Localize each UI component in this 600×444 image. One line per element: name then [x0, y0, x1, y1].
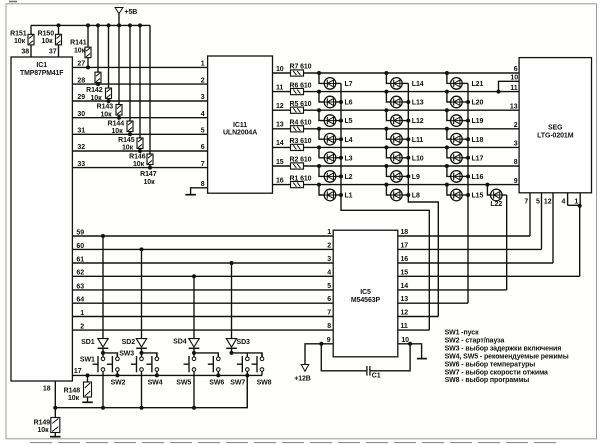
lamp L2 [317, 164, 353, 182]
svg-text:L22: L22 [490, 201, 502, 208]
diode SD4 [189, 276, 200, 353]
lamp L16 [445, 164, 484, 182]
svg-text:SW7 - выбор скорости отжима: SW7 - выбор скорости отжима [445, 368, 548, 376]
wire IC11 pin 10 row to SEG pin 6 [273, 72, 520, 74]
svg-text:TMP87PM41F: TMP87PM41F [20, 70, 63, 77]
SEG pin 4 label [562, 199, 566, 206]
svg-text:10к: 10к [91, 95, 103, 102]
wire diode link to SW2 [103, 353, 117, 357]
svg-text:11: 11 [276, 84, 283, 91]
wire diode link to SW8 [232, 353, 263, 357]
wire IC1 pin 61 to IC5 pin 3 [72, 262, 333, 264]
wire IC5 pin 12 to lamp column 2 [398, 316, 439, 318]
svg-text:10к: 10к [14, 38, 26, 45]
svg-text:1: 1 [80, 310, 84, 317]
IC11 pin 5 label [201, 128, 205, 135]
resistor R7 610 [290, 64, 312, 76]
switch SW2 label [111, 379, 126, 386]
resistor R145 10k pull-up [118, 25, 135, 151]
lamp L22 [485, 183, 506, 209]
IC5 pin 16 label [401, 256, 409, 263]
wire SEG pin 1 stub [579, 193, 581, 206]
lamp L20 [445, 90, 484, 108]
svg-text:14: 14 [401, 283, 409, 290]
svg-text:6: 6 [514, 66, 518, 73]
lamp L17 [445, 145, 484, 163]
svg-text:SW7: SW7 [230, 379, 245, 386]
SEG pin 7 label [524, 199, 528, 206]
svg-text:3: 3 [327, 256, 331, 263]
IC5 pin 6 label [327, 296, 331, 303]
IC5 pin 8 label [327, 323, 331, 330]
svg-text:R151: R151 [10, 30, 27, 37]
resistor R141 10k pull-up [70, 25, 91, 67]
svg-text:R1 610: R1 610 [290, 175, 312, 182]
junction dot diode to SW5 [192, 351, 196, 355]
ground symbol at R149 [50, 436, 61, 438]
svg-text:13: 13 [276, 122, 284, 129]
SEG pin 12 label [544, 199, 552, 206]
driver IC11 ULN2004A [208, 56, 273, 193]
SEG pin 2 label [514, 122, 518, 129]
IC5 pin 11 label [401, 323, 408, 330]
wire diode link to SW4 [142, 353, 157, 357]
svg-text:L12: L12 [412, 118, 424, 125]
wire jog from row 2 to SEG pin 10 [497, 81, 520, 93]
lamp L21 [445, 71, 484, 89]
IC11 pin 12 label [276, 103, 284, 110]
IC5 pin 13 label [401, 296, 409, 303]
svg-text:8: 8 [327, 323, 331, 330]
svg-text:2: 2 [201, 77, 205, 84]
svg-text:R3 610: R3 610 [290, 138, 312, 145]
svg-text:2: 2 [80, 324, 84, 331]
svg-text:SW8: SW8 [257, 379, 272, 386]
svg-text:R143: R143 [97, 104, 114, 111]
switch SW5 [184, 353, 196, 408]
svg-text:SW4, SW5 - рекомендуемые режим: SW4, SW5 - рекомендуемые режимы [445, 353, 569, 360]
IC5 pin 3 label [327, 256, 331, 263]
pin 62 label [76, 270, 84, 277]
lamp L15 [445, 183, 484, 201]
switch SW8 label [257, 379, 272, 386]
wire IC1 pin 31 to IC11 pin 5 [72, 133, 207, 135]
pin 33 label [77, 161, 85, 168]
pin 17 label [74, 368, 82, 375]
lamp L6 [317, 90, 353, 108]
svg-text:4: 4 [562, 199, 566, 206]
svg-text:10: 10 [401, 337, 409, 344]
svg-text:SW6: SW6 [209, 379, 224, 386]
wire IC1 pin 60 to IC5 pin 2 [72, 248, 333, 250]
svg-text:L16: L16 [472, 174, 484, 181]
wire SEG pin 4 stub [567, 193, 569, 206]
switch SW7 [237, 353, 249, 408]
svg-text:31: 31 [77, 128, 85, 135]
SEG pin 13 label [510, 103, 518, 110]
junction dots on lower bus [53, 406, 196, 410]
wire lamp L22 to IC5 pin 14 [506, 195, 508, 290]
svg-text:R146: R146 [129, 154, 146, 161]
wire IC1 pin 28 to IC11 pin 2 [72, 83, 207, 85]
svg-text:10к: 10к [133, 161, 145, 168]
svg-text:8: 8 [514, 159, 518, 166]
ground symbol at IC5 pin 10 [417, 358, 427, 360]
svg-text:61: 61 [76, 256, 84, 263]
wire IC11 pin 14 row to SEG pin 3 [273, 146, 520, 148]
svg-text:16: 16 [276, 177, 284, 184]
diode SD2 label [122, 339, 136, 346]
resistor R151 [10, 25, 34, 57]
svg-text:SW4: SW4 [148, 379, 163, 386]
svg-text:SW8 - выбор программы: SW8 - выбор программы [445, 376, 530, 384]
wire IC5 pin 13 to lamp column 3 [398, 302, 468, 304]
pin 59 label [76, 229, 84, 236]
junction dot R146 on pin 32 line [138, 149, 142, 153]
junction dot R143 on pin 29 line [107, 99, 111, 103]
IC11 pin 13 label [276, 122, 284, 129]
wire IC1 pin 64 to IC5 pin 6 [72, 302, 333, 304]
svg-text:10к: 10к [122, 145, 134, 152]
resistor R6 610 [290, 82, 312, 94]
svg-text:2: 2 [327, 242, 331, 249]
svg-text:16: 16 [401, 256, 409, 263]
svg-text:ULN2004A: ULN2004A [223, 130, 257, 137]
junction dot C1 tap [319, 342, 323, 346]
svg-text:SD4: SD4 [173, 339, 187, 346]
svg-text:11: 11 [510, 85, 517, 92]
svg-text:32: 32 [77, 144, 85, 151]
svg-text:9: 9 [327, 337, 331, 344]
svg-text:2: 2 [514, 122, 518, 129]
IC11 pin 15 label [276, 159, 284, 166]
svg-text:SW6 - выбор температуры: SW6 - выбор температуры [445, 360, 536, 368]
lamp L5 [317, 108, 353, 126]
svg-text:15: 15 [276, 159, 284, 166]
resistor R5 610 [290, 101, 312, 113]
svg-text:SW1: SW1 [80, 356, 95, 363]
pin 1 label [80, 310, 84, 317]
junction dots on +5V rail [57, 23, 143, 27]
svg-text:5: 5 [327, 283, 331, 290]
svg-text:SEG: SEG [548, 124, 563, 131]
pin 18 label [43, 386, 51, 393]
resistor R149 10k [34, 408, 60, 437]
junction dot R141 on pin 27 line [86, 65, 90, 69]
svg-text:3: 3 [201, 94, 205, 101]
svg-text:L7: L7 [345, 81, 353, 88]
svg-text:M54563P: M54563P [351, 297, 381, 304]
resistor R147 10k pull-up [140, 25, 157, 186]
svg-text:10: 10 [510, 75, 518, 82]
wire IC5 pin 18 to SEG pin 7 [398, 235, 530, 237]
svg-text:R145: R145 [118, 137, 135, 144]
diode SD4 label [173, 339, 187, 346]
svg-text:3: 3 [514, 141, 518, 148]
IC11 pin 3 label [201, 94, 205, 101]
svg-text:59: 59 [76, 229, 84, 236]
IC5 pin 14 label [401, 283, 409, 290]
display SEG LTG-0201M [519, 58, 591, 193]
wire diode link to SW6 [194, 353, 218, 357]
pin 2 label [80, 324, 84, 331]
svg-text:R144: R144 [108, 120, 125, 127]
wire IC1 pin 17 rail [72, 374, 262, 376]
svg-text:L10: L10 [412, 155, 424, 162]
power +5V symbol [115, 8, 137, 16]
pin 63 label [76, 283, 84, 290]
lamp L10 [384, 145, 423, 163]
svg-text:30: 30 [77, 111, 85, 118]
resistor R4 610 [290, 120, 312, 132]
wire IC1 pin 33 to IC11 pin 7 [72, 167, 207, 169]
ground symbol at R148 [82, 401, 93, 403]
resistor R146 10k pull-up [129, 25, 146, 168]
wire IC5 pin 10 to ground [398, 342, 422, 358]
wire lamp column 1 bus to IC5 pin 11 [341, 83, 429, 330]
diode SD1 [98, 236, 109, 353]
svg-text:9: 9 [514, 178, 518, 185]
svg-text:6: 6 [201, 144, 205, 151]
SEG pin 9 label [514, 178, 518, 185]
switch SW2 [107, 353, 119, 376]
svg-text:IC1: IC1 [36, 62, 47, 69]
SEG pin 1 label [574, 199, 578, 206]
IC5 pin 9 label [327, 337, 331, 344]
wire SEG pin 5 stub to IC5 pin 17 [541, 193, 543, 250]
svg-text:R5 610: R5 610 [290, 101, 312, 108]
diode SD3 label [237, 339, 251, 346]
resistor R2 610 [290, 157, 312, 169]
resistor R1 610 [290, 175, 312, 187]
svg-text:11: 11 [401, 323, 408, 330]
IC11 pin 16 label [276, 177, 284, 184]
IC11 pin 7 label [201, 161, 205, 168]
svg-text:L20: L20 [472, 100, 484, 107]
svg-text:+5В: +5В [125, 9, 138, 16]
pin 27 label [77, 61, 85, 68]
svg-text:LTG-0201M: LTG-0201M [537, 133, 574, 140]
ground symbol at IC11 pin 8 [185, 194, 196, 196]
switch SW1 label [80, 356, 95, 363]
svg-text:IC11: IC11 [233, 122, 247, 129]
junction dot R145 on pin 31 line [128, 132, 132, 136]
wire IC5 pin 17 to SEG pin 5 [398, 248, 542, 250]
SEG pin 10 label [510, 75, 518, 82]
svg-text:10к: 10к [38, 427, 50, 434]
svg-text:R141: R141 [70, 40, 87, 47]
SEG pin 8 label [514, 159, 518, 166]
wire IC11 pin 11 row to SEG pin 11 [273, 91, 520, 93]
IC11 pin 8 label [201, 181, 205, 188]
svg-text:+12В: +12В [294, 376, 311, 383]
svg-text:1: 1 [327, 229, 331, 236]
svg-text:SW3: SW3 [119, 350, 134, 357]
IC5 pin 5 label [327, 283, 331, 290]
junction dot at SEG pin 1 [578, 204, 582, 208]
junction dot R142 on pin 28 line [96, 82, 100, 86]
capacitor C1 [321, 344, 410, 380]
svg-text:6: 6 [327, 296, 331, 303]
lamp L1 [317, 183, 353, 201]
lamp L8 [384, 183, 420, 201]
wire IC1 pin 27 to IC11 pin 1 [72, 66, 207, 68]
svg-text:R4 610: R4 610 [290, 120, 312, 127]
lamp L4 [317, 127, 353, 145]
svg-text:10к: 10к [101, 111, 113, 118]
diode SD1 label [81, 339, 95, 346]
resistor R3 610 [290, 138, 312, 150]
IC5 pin 10 label [401, 337, 409, 344]
resistor R144 10k pull-up [108, 25, 125, 135]
wire IC1 pin 30 to IC11 pin 4 [72, 117, 207, 119]
SEG pin 11 label [510, 85, 517, 92]
IC5 pin 12 label [401, 310, 409, 317]
svg-text:R149: R149 [34, 420, 51, 427]
svg-text:SD3: SD3 [237, 339, 251, 346]
SEG pin 5 label [536, 199, 540, 206]
wire IC1 pin 1 to IC5 pin 7 [72, 316, 333, 318]
junction dot diode to SW3 [140, 351, 144, 355]
junction dots on pin 17 rail [86, 373, 250, 377]
wire IC11 pin 12 row to SEG pin 13 [273, 109, 520, 111]
IC5 pin 7 label [327, 310, 331, 317]
wire SEG pin 7 stub to IC5 pin 18 [529, 193, 531, 236]
lamp L14 [384, 71, 423, 89]
wire +5V rail [31, 24, 150, 26]
pin 37 label [49, 49, 57, 56]
svg-text:7: 7 [524, 199, 528, 206]
IC5 pin 18 label [401, 229, 409, 236]
wire IC1 pin 59 to IC5 pin 1 [72, 235, 333, 237]
wire IC1 pin 62 to IC5 pin 4 [72, 275, 333, 277]
svg-text:13: 13 [401, 296, 409, 303]
wire IC5 pin 15 to SEG pin 1 [398, 275, 580, 277]
junction dot diode to SW1 [101, 351, 105, 355]
svg-text:12: 12 [544, 199, 552, 206]
wire IC5 pin 14 to lamp L22 [398, 289, 507, 291]
switch SW7 label [230, 379, 245, 386]
SEG pin 6 label [514, 66, 518, 73]
IC5 pin 17 label [401, 242, 409, 249]
svg-text:R6 610: R6 610 [290, 82, 312, 89]
IC11 pin 2 label [201, 77, 205, 84]
pin 38 label [21, 49, 29, 56]
switch SW6 label [209, 379, 224, 386]
microcontroller IC1 TMP87PM41F [11, 57, 72, 381]
svg-text:R7 610: R7 610 [290, 64, 312, 71]
svg-text:13: 13 [510, 103, 518, 110]
power +12V symbol [294, 365, 311, 383]
svg-text:10: 10 [276, 66, 284, 73]
lamp L3 [317, 145, 353, 163]
diode SD3 [226, 263, 237, 353]
switch SW4 [146, 353, 158, 376]
diode SD2 [136, 249, 147, 353]
IC5 pin 15 label [401, 269, 409, 276]
IC5 pin 4 label [327, 269, 331, 276]
svg-text:17: 17 [74, 368, 82, 375]
wire IC11 pin 8 to ground [191, 188, 208, 194]
pin 29 label [77, 94, 85, 101]
lamp L11 [384, 127, 423, 145]
svg-text:1: 1 [201, 61, 205, 68]
lamp L12 [384, 108, 423, 126]
switch SW3 label [119, 350, 134, 357]
lamp L7 [317, 71, 353, 89]
svg-text:15: 15 [401, 269, 409, 276]
svg-text:64: 64 [76, 297, 84, 304]
pin 60 label [76, 243, 84, 250]
wire lamp column 2 bus to IC5 pin 12 [408, 83, 438, 316]
svg-text:7: 7 [201, 161, 205, 168]
svg-text:7: 7 [327, 310, 331, 317]
svg-text:62: 62 [76, 270, 84, 277]
svg-text:L19: L19 [472, 118, 484, 125]
svg-text:L11: L11 [412, 137, 424, 144]
svg-text:18: 18 [401, 229, 409, 236]
driver IC5 M54563P [333, 230, 398, 357]
svg-text:L4: L4 [345, 137, 353, 144]
lamp L19 [445, 108, 484, 126]
wire IC11 pin 13 row to SEG pin 2 [273, 128, 520, 130]
resistor R143 10k pull-up [97, 25, 114, 118]
svg-text:L1: L1 [345, 193, 353, 200]
junction dot SD3 tap [230, 261, 234, 265]
IC5 pin 1 label [327, 229, 331, 236]
IC11 pin 11 label [276, 84, 283, 91]
svg-text:L15: L15 [472, 193, 484, 200]
wire IC5 pin 11 to lamp column 1 [398, 329, 430, 331]
svg-text:R148: R148 [64, 388, 81, 395]
wire tie bar pins 4 and 1 [568, 204, 581, 206]
svg-text:L14: L14 [412, 81, 424, 88]
svg-text:33: 33 [77, 161, 85, 168]
svg-text:SW2: SW2 [111, 379, 126, 386]
IC11 pin 10 label [276, 66, 284, 73]
junction dot SD1 tap [101, 234, 105, 238]
svg-text:10к: 10к [74, 48, 86, 55]
IC11 pin 14 label [276, 140, 284, 147]
switch SW1 [93, 353, 105, 408]
IC11 pin 4 label [201, 111, 205, 118]
svg-text:L18: L18 [472, 137, 484, 144]
wire IC11 pin 15 row to SEG pin 8 [273, 165, 520, 167]
svg-text:1: 1 [574, 199, 578, 206]
wire lamp column 3 bus to IC5 pin 13 [467, 83, 469, 303]
pin 64 label [76, 297, 84, 304]
wire lower bus [55, 375, 247, 407]
svg-text:10к: 10к [144, 179, 156, 186]
svg-text:38: 38 [21, 49, 29, 56]
svg-text:L2: L2 [345, 174, 353, 181]
pin 31 label [77, 128, 85, 135]
IC11 pin 1 label [201, 61, 205, 68]
wire IC1 pin 63 to IC5 pin 5 [72, 289, 333, 291]
svg-text:L17: L17 [472, 155, 484, 162]
junction dot diode to SW7 [230, 351, 234, 355]
svg-text:L8: L8 [412, 193, 420, 200]
switch SW6 [208, 353, 220, 376]
SEG pin 3 label [514, 141, 518, 148]
svg-text:28: 28 [77, 77, 85, 84]
svg-text:SW1 -пуск: SW1 -пуск [445, 330, 479, 337]
junction dot SD2 tap [140, 247, 144, 251]
resistor R142 10k pull-up [86, 25, 103, 102]
wire IC5 pin 9 to +12V [305, 344, 333, 365]
pin 61 label [76, 256, 84, 263]
svg-text:4: 4 [201, 111, 205, 118]
